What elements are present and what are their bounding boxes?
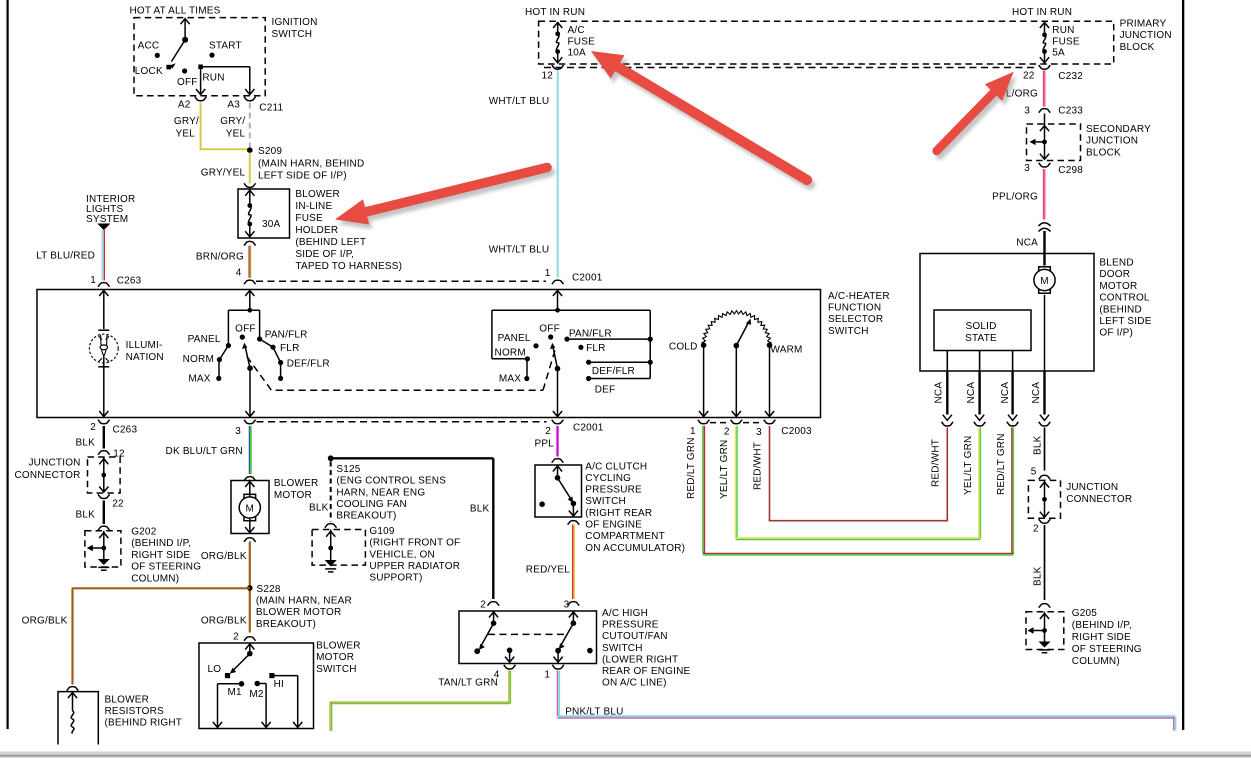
fuse 30A element bbox=[249, 191, 251, 206]
svg-text:DK BLU/LT GRN: DK BLU/LT GRN bbox=[166, 446, 243, 457]
svg-text:COLUMN): COLUMN) bbox=[1072, 656, 1120, 667]
mech linkage dashed sw2 bbox=[543, 350, 555, 391]
svg-text:NCA: NCA bbox=[966, 382, 977, 404]
svg-text:BRN/ORG: BRN/ORG bbox=[196, 252, 244, 263]
wire GRY/YEL from A2 bbox=[200, 103, 202, 151]
svg-text:(BEHIND LEFT: (BEHIND LEFT bbox=[295, 237, 366, 248]
connector C2001 pin 2 bbox=[552, 420, 564, 424]
svg-text:C2001: C2001 bbox=[573, 423, 604, 434]
svg-text:HARN, NEAR ENG: HARN, NEAR ENG bbox=[336, 487, 425, 498]
wire BLK to G202 bbox=[103, 501, 105, 525]
svg-text:SECONDARY: SECONDARY bbox=[1086, 124, 1151, 135]
svg-text:2: 2 bbox=[480, 600, 486, 611]
wire RED/WHT right bbox=[946, 428, 948, 521]
svg-text:PANEL: PANEL bbox=[188, 334, 221, 345]
svg-text:BLOWER: BLOWER bbox=[316, 641, 361, 652]
C2003 dashed segments bbox=[710, 422, 730, 424]
svg-text:RED/LT GRN: RED/LT GRN bbox=[686, 437, 697, 499]
svg-text:HOLDER: HOLDER bbox=[295, 225, 338, 236]
svg-text:5A: 5A bbox=[1052, 48, 1065, 59]
solid state box bbox=[934, 310, 1031, 351]
wire GRY/YEL from A3 bbox=[249, 103, 251, 148]
switch2 PAN/FLR stub bbox=[564, 337, 569, 342]
switch1 DEFFLR-DEF bbox=[280, 363, 282, 379]
HI contact bbox=[269, 673, 274, 678]
switch2 OFF dot bbox=[548, 334, 553, 339]
svg-text:NATION: NATION bbox=[126, 352, 164, 363]
svg-text:(RIGHT REAR: (RIGHT REAR bbox=[585, 508, 652, 519]
svg-text:BLOWER: BLOWER bbox=[274, 478, 319, 489]
wire RUN to A2 bbox=[200, 69, 202, 94]
svg-text:TAPED TO HARNESS): TAPED TO HARNESS) bbox=[295, 261, 402, 272]
svg-text:C233: C233 bbox=[1058, 106, 1083, 117]
svg-text:BLOCK: BLOCK bbox=[1120, 42, 1155, 53]
connector above G205 bbox=[1039, 604, 1051, 608]
cutout switch NC dot bbox=[587, 648, 593, 654]
svg-text:BLK: BLK bbox=[1033, 435, 1044, 455]
svg-text:DEF/FLR: DEF/FLR bbox=[592, 366, 635, 377]
svg-text:WHT/LT BLU: WHT/LT BLU bbox=[489, 96, 550, 107]
secondary junction block interior bbox=[1044, 114, 1046, 142]
switch2 feed arrow bbox=[557, 290, 559, 311]
wire ORG/BLK branch to resistors bbox=[72, 587, 250, 589]
wire RED/YEL bbox=[572, 525, 574, 600]
cutout switch dashed linkage bbox=[488, 633, 567, 635]
connector below fuse holder bbox=[244, 241, 256, 245]
connector C263 pin 2 bbox=[98, 420, 110, 424]
ground G109 interior bbox=[330, 530, 332, 549]
svg-text:1: 1 bbox=[545, 268, 551, 279]
cutout switch right lever bbox=[572, 611, 574, 623]
wire DK BLU/LT GRN bbox=[248, 426, 250, 474]
svg-text:NORM: NORM bbox=[495, 348, 526, 359]
svg-text:PAN/FLR: PAN/FLR bbox=[265, 330, 308, 341]
svg-text:22: 22 bbox=[1023, 71, 1035, 82]
svg-text:TAN/LT GRN: TAN/LT GRN bbox=[438, 678, 498, 689]
svg-text:SUPPORT): SUPPORT) bbox=[369, 573, 422, 584]
wire RED/WHT left bbox=[769, 426, 771, 521]
switch2 NORM-MAX bbox=[526, 359, 528, 379]
svg-text:PNK/LT BLU: PNK/LT BLU bbox=[565, 707, 623, 718]
wire ORG/BLK blower bbox=[249, 542, 251, 633]
svg-text:PRIMARY: PRIMARY bbox=[1120, 19, 1167, 30]
primary junction block box bbox=[539, 21, 1114, 64]
svg-text:YEL: YEL bbox=[175, 129, 195, 140]
svg-text:G202: G202 bbox=[131, 527, 157, 538]
svg-text:BREAKOUT): BREAKOUT) bbox=[256, 619, 316, 630]
switch1 PANEL-NORM lever bbox=[219, 346, 228, 360]
wire RED/LT GRN right bbox=[1011, 428, 1013, 555]
svg-text:YEL/LT GRN: YEL/LT GRN bbox=[719, 440, 730, 499]
interior lights arrow bbox=[97, 224, 110, 231]
svg-text:SWITCH: SWITCH bbox=[828, 326, 869, 337]
C232 connector dashed line bbox=[544, 67, 1036, 69]
svg-text:BLK: BLK bbox=[75, 438, 95, 449]
svg-text:A3: A3 bbox=[227, 100, 240, 111]
left border bbox=[7, 0, 9, 729]
connector above blower motor bbox=[244, 477, 256, 481]
connector cutout pin 4 bbox=[504, 665, 516, 669]
wire BLK dashed to G109 bbox=[330, 462, 332, 522]
svg-text:CONTROL: CONTROL bbox=[1099, 293, 1150, 304]
A/C clutch cycling pressure switch box bbox=[535, 465, 582, 517]
svg-text:C298: C298 bbox=[1058, 165, 1083, 176]
solid state output wires bbox=[946, 351, 948, 372]
svg-text:OF ENGINE: OF ENGINE bbox=[585, 520, 642, 531]
left junction connector interior bbox=[103, 457, 105, 475]
svg-text:(MAIN HARN, BEHIND: (MAIN HARN, BEHIND bbox=[258, 159, 364, 170]
svg-text:C2001: C2001 bbox=[572, 273, 603, 284]
svg-text:YEL: YEL bbox=[226, 129, 246, 140]
M1 contact bbox=[239, 681, 245, 687]
C2001 top dashed line bbox=[256, 280, 546, 282]
wire BLK to G205 bbox=[1044, 525, 1046, 600]
svg-text:MOTOR: MOTOR bbox=[316, 652, 354, 663]
svg-text:RED/WHT: RED/WHT bbox=[931, 439, 942, 487]
svg-text:1: 1 bbox=[690, 426, 696, 437]
red arrow to A/C fuse bbox=[594, 56, 810, 185]
svg-text:WARM: WARM bbox=[771, 345, 803, 356]
svg-text:OF STEERING: OF STEERING bbox=[1072, 644, 1142, 655]
svg-text:RESISTORS: RESISTORS bbox=[105, 706, 165, 717]
connectors below blend box bbox=[942, 422, 954, 426]
svg-text:FUNCTION: FUNCTION bbox=[828, 303, 881, 314]
wire PPL/ORG upper bbox=[1043, 71, 1045, 107]
svg-text:3: 3 bbox=[756, 427, 762, 438]
svg-text:PPL/ORG: PPL/ORG bbox=[992, 192, 1038, 203]
secondary junction block box bbox=[1027, 124, 1081, 161]
connector below cycling switch bbox=[568, 521, 580, 525]
svg-text:BLOWER: BLOWER bbox=[105, 694, 150, 705]
ignition lever bbox=[172, 40, 186, 62]
wire RUN to A3 bbox=[201, 66, 250, 68]
connector A3 bbox=[244, 97, 256, 101]
right border bbox=[1182, 0, 1184, 730]
LOCK contact bbox=[166, 65, 171, 70]
wire motor to box bottom bbox=[1044, 295, 1046, 371]
wire PPL/ORG lower bbox=[1043, 169, 1045, 220]
svg-text:SELECTOR: SELECTOR bbox=[828, 314, 883, 325]
svg-text:OFF: OFF bbox=[539, 324, 560, 335]
svg-text:MAX: MAX bbox=[499, 374, 521, 385]
right junction connector top bbox=[1039, 475, 1051, 479]
connector above cycling switch bbox=[552, 459, 564, 463]
svg-text:UPPER RADIATOR: UPPER RADIATOR bbox=[369, 561, 460, 572]
svg-text:FLR: FLR bbox=[280, 343, 300, 354]
ground G205 interior bbox=[1044, 612, 1046, 631]
RUN contact bbox=[198, 65, 203, 70]
connector C2001 pin 1 bbox=[552, 280, 564, 284]
illumination lamp bbox=[98, 329, 109, 331]
svg-text:COOLING FAN: COOLING FAN bbox=[336, 499, 407, 510]
blower switch feed bbox=[249, 643, 251, 654]
svg-text:COLD: COLD bbox=[669, 342, 698, 353]
ground G109 box bbox=[312, 530, 365, 566]
svg-text:RED/WHT: RED/WHT bbox=[752, 442, 763, 490]
svg-text:(BEHIND I/P,: (BEHIND I/P, bbox=[1072, 620, 1132, 631]
svg-text:3: 3 bbox=[235, 426, 241, 437]
right junction connector box bbox=[1028, 480, 1060, 518]
svg-text:PRESSURE: PRESSURE bbox=[585, 485, 642, 496]
svg-text:RUN: RUN bbox=[202, 73, 224, 84]
blend door motor control box bbox=[920, 254, 1094, 372]
svg-text:C263: C263 bbox=[113, 425, 138, 436]
svg-text:(ENG CONTROL SENS: (ENG CONTROL SENS bbox=[336, 476, 446, 487]
function selector switch box bbox=[37, 290, 821, 418]
switch2 top bar bbox=[492, 309, 650, 311]
LO contact bbox=[225, 673, 230, 678]
svg-text:S228: S228 bbox=[257, 584, 281, 595]
svg-text:GRY/: GRY/ bbox=[220, 116, 245, 127]
switch2 right arm bbox=[649, 310, 651, 378]
wire PPL bbox=[556, 426, 558, 457]
svg-text:FLR: FLR bbox=[586, 343, 606, 354]
wire PNK/LT BLU bbox=[556, 671, 558, 717]
svg-text:C232: C232 bbox=[1058, 71, 1083, 82]
svg-text:2: 2 bbox=[233, 632, 239, 643]
svg-text:YEL/LT GRN: YEL/LT GRN bbox=[963, 436, 974, 495]
START contact dot bbox=[209, 53, 214, 58]
cutout switch left lever bbox=[493, 611, 495, 623]
svg-text:1: 1 bbox=[544, 670, 550, 681]
svg-text:M1: M1 bbox=[228, 687, 243, 698]
svg-text:PAN/FLR: PAN/FLR bbox=[569, 329, 612, 340]
svg-text:GRY/: GRY/ bbox=[174, 116, 199, 127]
svg-text:BLK: BLK bbox=[1033, 566, 1044, 586]
svg-text:A/C: A/C bbox=[568, 25, 585, 36]
connector C2001 pin 4 bbox=[244, 280, 256, 284]
blower motor box bbox=[231, 481, 269, 534]
svg-text:5: 5 bbox=[1031, 467, 1037, 478]
cycling switch interior bbox=[557, 465, 559, 478]
svg-text:C2003: C2003 bbox=[781, 426, 812, 437]
pot outputs bbox=[703, 346, 705, 416]
svg-text:ON A/C LINE): ON A/C LINE) bbox=[602, 678, 667, 689]
svg-text:2: 2 bbox=[90, 422, 96, 433]
splice S209 bbox=[247, 147, 253, 153]
bottom scrollbar bbox=[0, 752, 1251, 758]
svg-text:JUNCTION: JUNCTION bbox=[1086, 136, 1138, 147]
svg-text:A/C CLUTCH: A/C CLUTCH bbox=[585, 461, 647, 472]
cutout switch pin4 stub bbox=[507, 648, 513, 654]
svg-text:10A: 10A bbox=[568, 48, 587, 59]
right junction connector interior bbox=[1044, 480, 1046, 499]
svg-text:2: 2 bbox=[1033, 524, 1039, 535]
blower resistors interior bbox=[72, 692, 74, 711]
wire YEL/LT GRN right bbox=[978, 428, 980, 539]
svg-text:2: 2 bbox=[724, 427, 730, 438]
blower in-line fuse holder box bbox=[238, 189, 290, 238]
temp pot resistive arc bbox=[702, 311, 771, 346]
illumination feed arrow bbox=[103, 290, 105, 330]
svg-text:NCA: NCA bbox=[934, 382, 945, 404]
svg-text:BLK: BLK bbox=[75, 510, 95, 521]
switch2 PANEL dot bbox=[533, 343, 538, 348]
wire RED/LT GRN left bbox=[702, 426, 704, 553]
svg-text:PANEL: PANEL bbox=[498, 333, 531, 344]
wire BRN/ORG bbox=[248, 246, 250, 278]
splice S125 bbox=[328, 455, 334, 461]
switch1 right arm bbox=[259, 310, 261, 339]
red arrow to run fuse pin 22 bbox=[940, 76, 1017, 155]
svg-text:C211: C211 bbox=[259, 103, 283, 114]
svg-text:BLK: BLK bbox=[470, 504, 490, 515]
switch1 NORM-MAX bbox=[218, 360, 220, 379]
temp pot WARM dot bbox=[767, 342, 773, 348]
switch2 output bbox=[557, 369, 559, 416]
svg-text:WHT/LT BLU: WHT/LT BLU bbox=[489, 245, 550, 256]
switch2 DEF/FLR stub bbox=[586, 360, 591, 365]
svg-text:CONNECTOR: CONNECTOR bbox=[15, 470, 81, 481]
illumination to bottom bbox=[103, 367, 105, 416]
svg-text:VEHICLE, ON: VEHICLE, ON bbox=[369, 549, 435, 560]
svg-text:OF I/P): OF I/P) bbox=[1099, 328, 1133, 339]
ignition feed arrow bbox=[184, 20, 186, 40]
connector C2001 pin 3 bbox=[244, 420, 256, 424]
wire WHT/LT BLU bbox=[557, 71, 559, 278]
svg-text:JUNCTION: JUNCTION bbox=[1066, 482, 1118, 493]
wire YEL/LT GRN left bbox=[735, 426, 737, 538]
svg-text:SWITCH: SWITCH bbox=[272, 29, 313, 40]
connector pin 12 bbox=[98, 451, 110, 455]
svg-text:MOTOR: MOTOR bbox=[1099, 281, 1137, 292]
svg-text:LOCK: LOCK bbox=[135, 66, 163, 77]
svg-text:3: 3 bbox=[1024, 163, 1030, 174]
inline connector bbox=[1039, 223, 1051, 226]
svg-text:JUNCTION: JUNCTION bbox=[28, 458, 80, 469]
svg-text:12: 12 bbox=[541, 71, 553, 82]
svg-text:SWITCH: SWITCH bbox=[585, 496, 626, 507]
red arrow to blower fuse holder bbox=[338, 172, 550, 229]
svg-text:S125: S125 bbox=[336, 464, 360, 475]
wire BLK C263 bbox=[103, 426, 105, 449]
A/C high pressure cutout/fan switch box bbox=[459, 611, 597, 664]
svg-text:MAX: MAX bbox=[188, 374, 210, 385]
svg-text:DEF/FLR: DEF/FLR bbox=[287, 358, 330, 369]
svg-text:PPL: PPL bbox=[534, 439, 554, 450]
svg-text:BREAKOUT): BREAKOUT) bbox=[336, 511, 396, 522]
svg-text:COMPARTMENT: COMPARTMENT bbox=[585, 531, 665, 542]
svg-text:SYSTEM: SYSTEM bbox=[86, 214, 128, 225]
svg-text:M: M bbox=[246, 504, 255, 515]
connector above blower resistors bbox=[67, 687, 79, 691]
svg-text:START: START bbox=[209, 41, 242, 52]
switch1 left arm bbox=[227, 310, 229, 345]
svg-text:IGNITION: IGNITION bbox=[272, 17, 318, 28]
svg-text:A/C HIGH: A/C HIGH bbox=[602, 608, 648, 619]
switch1 output bbox=[249, 368, 251, 416]
svg-text:HOT AT ALL TIMES: HOT AT ALL TIMES bbox=[130, 6, 221, 17]
connector C263 pin 1 bbox=[98, 283, 110, 287]
svg-text:(RIGHT FRONT OF: (RIGHT FRONT OF bbox=[369, 538, 460, 549]
connector cutout pin 2 bbox=[488, 602, 500, 606]
svg-text:30A: 30A bbox=[262, 219, 281, 230]
svg-text:22: 22 bbox=[112, 499, 124, 510]
svg-text:(MAIN HARN, NEAR: (MAIN HARN, NEAR bbox=[256, 596, 352, 607]
A/C fuse element bbox=[557, 23, 559, 34]
svg-text:BLOCK: BLOCK bbox=[1086, 147, 1121, 158]
connector C232 pin 22 bbox=[1039, 65, 1051, 69]
svg-text:OFF: OFF bbox=[235, 324, 256, 335]
wire BLK S125 to cutout switch bbox=[331, 457, 494, 459]
wire BLK below blend bbox=[1044, 428, 1046, 471]
svg-text:BLOWER MOTOR: BLOWER MOTOR bbox=[256, 607, 342, 618]
connector above fuse holder bbox=[244, 183, 256, 187]
svg-text:DEF: DEF bbox=[595, 385, 616, 396]
blower motor switch box bbox=[199, 643, 314, 729]
ground G202 interior bbox=[103, 531, 105, 548]
blend door motor M bbox=[1039, 267, 1051, 272]
ground G202 box bbox=[85, 531, 121, 567]
svg-text:(BEHIND: (BEHIND bbox=[1099, 304, 1142, 315]
svg-text:M: M bbox=[1040, 276, 1049, 287]
svg-text:LO: LO bbox=[208, 664, 222, 675]
switch1 PANFLR-FLR bbox=[260, 339, 273, 347]
svg-text:OF STEERING: OF STEERING bbox=[131, 562, 201, 573]
mech linkage dashed sw1 bbox=[247, 357, 543, 391]
svg-text:4: 4 bbox=[236, 268, 242, 279]
M2 contact bbox=[254, 681, 260, 687]
wire LT BLU/RED bbox=[102, 230, 104, 281]
svg-text:PRESSURE: PRESSURE bbox=[602, 619, 659, 630]
svg-text:IN-LINE: IN-LINE bbox=[295, 201, 332, 212]
svg-text:2: 2 bbox=[545, 426, 551, 437]
svg-text:SWITCH: SWITCH bbox=[602, 643, 643, 654]
svg-text:CYCLING: CYCLING bbox=[585, 473, 631, 484]
connector C298 bbox=[1039, 163, 1051, 167]
switch1 FLR-DEFFLR bbox=[273, 347, 281, 362]
connectors C2003 bbox=[698, 420, 710, 424]
switch2 FLR dot bbox=[578, 345, 583, 350]
connector above blower switch bbox=[244, 637, 256, 641]
svg-text:(BEHIND I/P,: (BEHIND I/P, bbox=[131, 538, 191, 549]
switch1 OFF dot bbox=[240, 335, 245, 340]
ground G205 box bbox=[1026, 612, 1064, 650]
wire TAN/LT GRN bbox=[508, 671, 510, 704]
connector cutout pin 3 bbox=[568, 602, 580, 606]
svg-text:ACC: ACC bbox=[138, 41, 160, 52]
svg-text:ORG/BLK: ORG/BLK bbox=[201, 616, 247, 627]
svg-text:CONNECTOR: CONNECTOR bbox=[1066, 494, 1132, 505]
connector above G202 bbox=[98, 526, 110, 530]
svg-text:RIGHT SIDE: RIGHT SIDE bbox=[131, 550, 190, 561]
svg-text:LEFT SIDE OF I/P): LEFT SIDE OF I/P) bbox=[258, 171, 347, 182]
svg-text:G109: G109 bbox=[369, 526, 395, 537]
svg-text:LEFT SIDE: LEFT SIDE bbox=[1099, 316, 1151, 327]
svg-text:GRY/YEL: GRY/YEL bbox=[201, 168, 246, 179]
connector above G109 bbox=[325, 524, 337, 528]
svg-text:(BEHIND RIGHT: (BEHIND RIGHT bbox=[105, 718, 183, 729]
temp pot wiper bbox=[734, 343, 740, 349]
svg-text:NCA: NCA bbox=[1000, 382, 1011, 404]
svg-text:FUSE: FUSE bbox=[295, 213, 323, 224]
svg-text:C263: C263 bbox=[117, 276, 142, 287]
svg-text:RIGHT SIDE: RIGHT SIDE bbox=[1072, 632, 1131, 643]
C2001 bottom dashed line bbox=[257, 421, 547, 423]
svg-text:OFF: OFF bbox=[177, 77, 198, 88]
connector below blower motor bbox=[244, 538, 256, 542]
svg-text:1: 1 bbox=[90, 275, 96, 286]
svg-text:RUN: RUN bbox=[1052, 25, 1074, 36]
svg-text:ON ACCUMULATOR): ON ACCUMULATOR) bbox=[585, 543, 685, 554]
switch1 feed arrow bbox=[249, 290, 251, 311]
svg-text:ILLUMI-: ILLUMI- bbox=[126, 340, 163, 351]
svg-text:NCA: NCA bbox=[1016, 238, 1038, 249]
svg-text:NORM: NORM bbox=[183, 354, 214, 365]
switch1 top bar bbox=[228, 309, 259, 311]
blower motor interior bbox=[249, 481, 251, 497]
splice S228 bbox=[247, 585, 253, 591]
